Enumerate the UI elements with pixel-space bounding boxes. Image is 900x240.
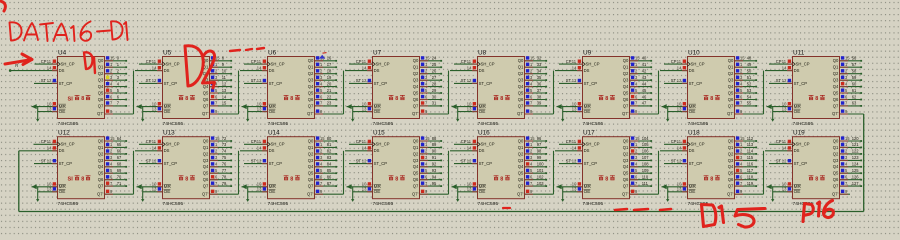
wire DS serial-in of U11, pin 14 [765, 65, 792, 70]
svg-text:15: 15 [222, 101, 227, 106]
shift register U7 74HC595 [372, 49, 420, 127]
wire output Q7 of U12, pin 7, net 71 [105, 181, 127, 187]
wire output Q3 of U13, pin 3, net 75 [210, 155, 232, 161]
svg-text:Q5: Q5 [728, 171, 734, 176]
svg-text:127: 127 [852, 181, 860, 186]
wire output Q1 of U8, pin 1, net 33 [525, 62, 547, 68]
svg-text:96: 96 [537, 136, 542, 141]
wire output Q2 of U12, pin 2, net 66 [105, 149, 127, 155]
svg-text:SH_CP: SH_CP [61, 62, 75, 67]
svg-text:ST_CP: ST_CP [164, 81, 178, 86]
svg-text:11: 11 [572, 139, 577, 144]
svg-text:Q0: Q0 [98, 58, 104, 63]
annotation red dashes near U6 [230, 48, 264, 51]
svg-text:DS: DS [269, 148, 275, 153]
svg-text:Q4: Q4 [623, 164, 629, 169]
svg-text:ST: ST [41, 158, 47, 163]
svg-text:Q7': Q7' [517, 111, 524, 116]
wire output Q0 of U13, pin 15, net 72 [210, 136, 232, 142]
wire output Q5 of U6, pin 5, net 21 [315, 88, 337, 94]
svg-text:Q4: Q4 [833, 164, 839, 169]
svg-text:68: 68 [117, 162, 122, 167]
wire output Q3 of U11, pin 3, net 59 [840, 75, 862, 81]
svg-text:91: 91 [432, 155, 437, 160]
shift register U16 74HC595 [477, 130, 525, 208]
wire serial chain Q7' pin 9 of U8 to next stage DS [525, 71, 554, 114]
wire output Q6 of U9, pin 6, net 46 [630, 94, 652, 100]
svg-text:Q7': Q7' [412, 191, 419, 196]
wire output Q4 of U4, pin 4, net 4 [105, 81, 127, 87]
svg-text:103: 103 [537, 181, 545, 186]
svg-text:R: R [15, 63, 18, 68]
wire output Q5 of U10, pin 5, net 53 [735, 88, 757, 94]
annotation D15 [702, 205, 766, 228]
svg-text:16: 16 [327, 56, 332, 61]
svg-text:Q6: Q6 [308, 177, 314, 182]
annotation red corner squiggle top-left [0, 1, 5, 11]
svg-text:121: 121 [852, 142, 860, 147]
svg-text:42: 42 [642, 69, 647, 74]
svg-text:66: 66 [117, 149, 122, 154]
wire output Q1 of U17, pin 1, net 105 [630, 142, 652, 148]
svg-text:ST_CP: ST_CP [479, 81, 493, 86]
wire output Q3 of U7, pin 3, net 27 [420, 75, 442, 81]
wire output Q3 of U9, pin 3, net 43 [630, 75, 652, 81]
svg-text:113: 113 [747, 142, 754, 147]
svg-text:11: 11 [677, 139, 682, 144]
svg-text:19: 19 [327, 75, 332, 80]
svg-text:ST_CP: ST_CP [689, 81, 703, 86]
wire output Q4 of U19, pin 4, net 124 [840, 162, 862, 168]
wire DS serial-in of U16, pin 14 [450, 146, 477, 151]
svg-text:Q0: Q0 [833, 58, 839, 63]
svg-text:DS: DS [374, 68, 380, 73]
svg-text:Q7': Q7' [517, 191, 524, 196]
wire output Q6 of U14, pin 6, net 86 [315, 175, 337, 181]
svg-text:14: 14 [782, 65, 787, 70]
svg-text:11: 11 [222, 75, 227, 80]
wire output Q4 of U5, pin 4, net 12 [210, 81, 232, 87]
svg-text:OE: OE [59, 189, 66, 194]
wire output Q7 of U16, pin 7, net 103 [525, 181, 547, 187]
wire output Q0 of U18, pin 15, net 112 [735, 136, 757, 142]
svg-text:Q7: Q7 [728, 103, 734, 108]
wire ST_CP latch stub of U12 with net label ST, pin 12 [34, 158, 57, 163]
svg-text:13: 13 [222, 88, 227, 93]
svg-text:Q3: Q3 [413, 78, 419, 83]
wire output Q5 of U14, pin 5, net 85 [315, 168, 337, 174]
svg-text:58: 58 [852, 69, 857, 74]
wire SH_CP clock stub of U17 with net label CP, pin 11 [559, 139, 582, 144]
wire ST_CP latch stub of U4 with net label ST, pin 12 [34, 78, 57, 83]
svg-text:97: 97 [537, 142, 542, 147]
wire output Q3 of U6, pin 3, net 19 [315, 75, 337, 81]
wire output Q0 of U11, pin 15, net 56 [840, 56, 862, 62]
svg-text:119: 119 [747, 181, 754, 186]
svg-text:Q2: Q2 [413, 71, 419, 76]
svg-text:Q7': Q7' [727, 191, 734, 196]
wire output Q4 of U18, pin 4, net 116 [735, 162, 757, 168]
svg-text:27: 27 [432, 75, 437, 80]
power arrow terminal on MR pin 10 and ground tail on OE pin 13 of U16 [452, 182, 478, 202]
svg-text:26: 26 [432, 69, 437, 74]
svg-text:Q7: Q7 [413, 184, 419, 189]
svg-text:74HC595: 74HC595 [583, 201, 604, 207]
svg-text:Q7': Q7' [622, 191, 629, 196]
svg-text:21: 21 [327, 88, 332, 93]
svg-text:15: 15 [110, 56, 115, 61]
svg-text:SH_CP: SH_CP [691, 142, 705, 147]
svg-text:Q3: Q3 [98, 78, 104, 83]
svg-text:12: 12 [362, 158, 367, 163]
wire output Q6 of U11, pin 6, net 62 [840, 94, 862, 100]
wire output Q5 of U9, pin 5, net 45 [630, 88, 652, 94]
svg-text:44: 44 [642, 81, 647, 86]
wire output Q2 of U17, pin 2, net 106 [630, 149, 652, 155]
svg-text:ST_CP: ST_CP [374, 161, 388, 166]
svg-text:DS: DS [794, 148, 800, 153]
wire output Q1 of U14, pin 1, net 81 [315, 142, 337, 148]
wire DS serial-in of U4, pin 14 [9, 63, 57, 72]
svg-text:12: 12 [47, 78, 52, 83]
svg-text:Q3: Q3 [308, 78, 314, 83]
wire serial chain Q7' pin 9 of U15 to next stage DS [420, 151, 449, 194]
svg-text:12: 12 [677, 78, 682, 83]
wire output Q5 of U13, pin 5, net 77 [210, 168, 232, 174]
wire output Q6 of U16, pin 6, net 102 [525, 175, 547, 181]
svg-text:12: 12 [782, 158, 787, 163]
svg-text:82: 82 [327, 149, 332, 154]
wire output Q2 of U9, pin 2, net 42 [630, 69, 652, 75]
svg-text:8: 8 [710, 96, 713, 102]
wire output Q3 of U17, pin 3, net 107 [630, 155, 652, 161]
wire ST_CP latch stub of U5 with net label ST, pin 12 [139, 78, 162, 83]
wire output Q3 of U10, pin 3, net 51 [735, 75, 757, 81]
shift register U18 74HC595 [687, 130, 735, 208]
svg-text:Q4: Q4 [518, 84, 524, 89]
svg-text:11: 11 [677, 59, 682, 64]
wire output Q0 of U4, pin 15, net 0 [105, 56, 127, 62]
svg-text:Q6: Q6 [98, 177, 104, 182]
svg-text:30: 30 [432, 94, 437, 99]
svg-text:Q6: Q6 [203, 177, 209, 182]
svg-text:Q5: Q5 [203, 171, 209, 176]
svg-text:13: 13 [782, 106, 787, 111]
wire output Q2 of U10, pin 2, net 50 [735, 69, 757, 75]
svg-text:OE: OE [374, 109, 381, 114]
svg-text:Q1: Q1 [518, 65, 524, 70]
svg-text:ST: ST [41, 78, 47, 83]
wire serial chain Q7' pin 9 of U19 to next stage DS [840, 189, 850, 194]
wire output Q6 of U7, pin 6, net 30 [420, 94, 442, 100]
svg-text:76: 76 [222, 162, 227, 167]
wire SH_CP clock stub of U8 with net label CP, pin 11 [454, 59, 477, 64]
shift register U10 74HC595 [687, 49, 735, 127]
svg-text:11: 11 [47, 139, 52, 144]
svg-text:Q1: Q1 [623, 65, 629, 70]
wire output Q0 of U5, pin 15, net 8 [210, 56, 232, 62]
svg-text:74HC595: 74HC595 [478, 121, 499, 127]
wire SH_CP clock stub of U15 with net label CP, pin 11 [349, 139, 372, 144]
svg-text:72: 72 [222, 136, 227, 141]
wire output Q3 of U15, pin 3, net 91 [420, 155, 442, 161]
svg-text:15: 15 [740, 136, 745, 141]
svg-text:12: 12 [782, 78, 787, 83]
wire output Q7 of U18, pin 7, net 119 [735, 181, 757, 187]
svg-text:Q0: Q0 [518, 138, 524, 143]
svg-text:13: 13 [257, 187, 262, 192]
svg-text:63: 63 [852, 101, 857, 106]
annotation D16 [803, 201, 833, 222]
svg-text:15: 15 [530, 56, 535, 61]
wire output Q6 of U17, pin 6, net 110 [630, 175, 652, 181]
shift register U5 74HC595 [162, 49, 210, 127]
svg-text:35: 35 [537, 75, 542, 80]
svg-text:74HC595: 74HC595 [373, 201, 394, 207]
svg-text:124: 124 [852, 162, 860, 167]
svg-text:Q3: Q3 [518, 158, 524, 163]
svg-text:11: 11 [362, 139, 367, 144]
svg-text:8: 8 [395, 176, 398, 182]
svg-text:SH_CP: SH_CP [796, 142, 810, 147]
wire feedback from U11 Q7' down right edge, across bottom, up to U12 DS [19, 114, 864, 212]
svg-text:Q3: Q3 [308, 158, 314, 163]
svg-text:126: 126 [852, 175, 860, 180]
svg-text:51: 51 [747, 75, 752, 80]
wire output Q1 of U4, pin 1, net 1 [105, 62, 127, 68]
svg-text:8: 8 [185, 176, 188, 182]
svg-text:33: 33 [537, 62, 542, 67]
wire SH_CP clock stub of U7 with net label CP, pin 11 [349, 59, 372, 64]
wire output Q0 of U14, pin 15, net 80 [315, 136, 337, 142]
svg-text:Q0: Q0 [308, 138, 314, 143]
wire SH_CP clock stub of U10 with net label CP, pin 11 [664, 59, 687, 64]
wire ST_CP latch stub of U9 with net label ST, pin 12 [559, 78, 582, 83]
wire output Q1 of U19, pin 1, net 121 [840, 142, 862, 148]
svg-text:11: 11 [467, 59, 472, 64]
wire output Q2 of U7, pin 2, net 26 [420, 69, 442, 75]
svg-text:120: 120 [852, 136, 860, 141]
wire serial chain Q7' pin 9 of U9 to next stage DS [630, 71, 659, 114]
svg-text:14: 14 [47, 146, 52, 151]
svg-text:116: 116 [747, 162, 754, 167]
wire output Q4 of U11, pin 4, net 60 [840, 81, 862, 87]
wire output Q7 of U14, pin 7, net 87 [315, 181, 337, 187]
wire DS serial-in of U5, pin 14 [135, 65, 162, 70]
svg-text:54: 54 [747, 94, 752, 99]
wire output Q2 of U4, pin 2, net 2 [105, 69, 127, 75]
annotation small red dash bottom center [503, 207, 510, 209]
wire output Q7 of U13, pin 7, net 79 [210, 181, 232, 187]
svg-text:90: 90 [432, 149, 437, 154]
svg-text:14: 14 [677, 65, 682, 70]
shift register U17 74HC595 [582, 130, 630, 208]
wire output Q1 of U13, pin 1, net 73 [210, 142, 232, 148]
wire SH_CP clock stub of U19 with net label CP, pin 11 [769, 139, 792, 144]
shift register U11 74HC595 [792, 49, 840, 127]
wire output Q4 of U9, pin 4, net 44 [630, 81, 652, 87]
svg-text:112: 112 [747, 136, 754, 141]
wire output Q2 of U18, pin 2, net 114 [735, 149, 757, 155]
wire DS serial-in of U19, pin 14 [765, 146, 792, 151]
svg-text:DS: DS [584, 68, 590, 73]
svg-text:39: 39 [537, 101, 542, 106]
wire output Q0 of U10, pin 15, net 48 [735, 56, 757, 62]
wire serial chain Q7' pin 9 of U13 to next stage DS [210, 151, 239, 194]
wire output Q6 of U18, pin 6, net 118 [735, 175, 757, 181]
svg-text:45: 45 [642, 88, 647, 93]
wire output Q3 of U16, pin 3, net 99 [525, 155, 547, 161]
svg-text:U8: U8 [478, 49, 487, 56]
svg-text:75: 75 [222, 155, 227, 160]
svg-text:Q2: Q2 [98, 151, 104, 156]
wire serial chain Q7' pin 9 of U16 to next stage DS [525, 151, 554, 194]
wire output Q7 of U11, pin 7, net 63 [840, 101, 862, 107]
wire SH_CP clock stub of U4 with net label CP, pin 11 [35, 59, 58, 64]
svg-text:ST: ST [251, 158, 257, 163]
wire ST_CP latch stub of U19 with net label ST, pin 12 [769, 158, 792, 163]
svg-text:Q4: Q4 [203, 164, 209, 169]
svg-text:DS: DS [584, 148, 590, 153]
svg-text:47: 47 [642, 101, 647, 106]
svg-text:14: 14 [467, 146, 472, 151]
svg-text:Q0: Q0 [413, 58, 419, 63]
wire output Q1 of U12, pin 1, net 65 [105, 142, 127, 148]
wire output Q4 of U14, pin 4, net 84 [315, 162, 337, 168]
svg-text:74HC595: 74HC595 [163, 121, 184, 127]
svg-text:13: 13 [467, 106, 472, 111]
svg-text:SH_CP: SH_CP [481, 142, 495, 147]
svg-text:Q1: Q1 [833, 145, 839, 150]
svg-text:Q3: Q3 [728, 78, 734, 83]
svg-text:69: 69 [117, 168, 122, 173]
wire output Q4 of U6, pin 4, net 20 [315, 81, 337, 87]
shift register U9 74HC595 [582, 49, 630, 127]
svg-text:13: 13 [572, 106, 577, 111]
svg-text:106: 106 [642, 149, 650, 154]
svg-text:Q1: Q1 [728, 65, 734, 70]
wire output Q2 of U15, pin 2, net 90 [420, 149, 442, 155]
svg-text:SI: SI [68, 96, 74, 102]
svg-text:OE: OE [59, 109, 66, 114]
svg-text:Q7': Q7' [202, 111, 209, 116]
svg-text:DS: DS [59, 148, 65, 153]
wire SH_CP clock stub of U14 with net label CP, pin 11 [244, 139, 267, 144]
svg-text:83: 83 [327, 155, 332, 160]
svg-text:13: 13 [257, 106, 262, 111]
svg-text:SH_CP: SH_CP [586, 142, 600, 147]
svg-text:22: 22 [327, 94, 332, 99]
svg-text:74HC595: 74HC595 [793, 121, 814, 127]
shift register U13 74HC595 [162, 130, 210, 208]
svg-text:ST_CP: ST_CP [584, 81, 598, 86]
svg-text:14: 14 [152, 65, 157, 70]
svg-text:U6: U6 [268, 49, 277, 56]
svg-text:84: 84 [327, 162, 332, 167]
svg-text:Q5: Q5 [413, 171, 419, 176]
power arrow terminal on MR pin 10 and ground tail on OE pin 13 of U14 [242, 182, 268, 202]
svg-text:Q6: Q6 [728, 177, 734, 182]
svg-text:77: 77 [222, 168, 227, 173]
svg-text:ST: ST [356, 78, 362, 83]
svg-text:DS: DS [269, 68, 275, 73]
shift register U12 74HC595 [57, 130, 105, 208]
svg-text:108: 108 [642, 162, 650, 167]
svg-text:105: 105 [642, 142, 650, 147]
svg-text:Q2: Q2 [833, 151, 839, 156]
svg-text:Q7': Q7' [202, 191, 209, 196]
svg-text:20: 20 [327, 81, 332, 86]
svg-text:Q3: Q3 [413, 158, 419, 163]
wire SH_CP clock stub of U12 with net label CP, pin 11 [34, 139, 58, 144]
svg-text:111: 111 [642, 181, 649, 186]
svg-text:23: 23 [327, 101, 332, 106]
wire ST_CP latch stub of U18 with net label ST, pin 12 [664, 158, 687, 163]
wire output Q6 of U10, pin 6, net 54 [735, 94, 757, 100]
svg-text:Q1: Q1 [518, 145, 524, 150]
power arrow terminal on MR pin 10 and ground tail on OE pin 13 of U9 [557, 101, 583, 121]
svg-text:8: 8 [500, 96, 503, 102]
wire DS serial-in of U10, pin 14 [660, 65, 687, 70]
svg-text:DS: DS [689, 68, 695, 73]
svg-text:71: 71 [117, 181, 122, 186]
svg-text:U12: U12 [58, 130, 70, 137]
svg-text:Q2: Q2 [728, 71, 734, 76]
shift register U15 74HC595 [372, 130, 420, 208]
annotation D1 over U4 [84, 52, 95, 73]
svg-text:14: 14 [257, 65, 262, 70]
svg-text:Q4: Q4 [203, 84, 209, 89]
svg-text:ST_CP: ST_CP [794, 161, 808, 166]
svg-text:14: 14 [47, 65, 52, 70]
wire serial chain Q7' pin 9 of U10 to next stage DS [735, 71, 764, 114]
svg-text:13: 13 [47, 106, 52, 111]
svg-text:11: 11 [47, 59, 52, 64]
svg-text:OE: OE [164, 189, 171, 194]
wire output Q1 of U16, pin 1, net 97 [525, 142, 547, 148]
svg-text:70: 70 [117, 175, 122, 180]
annotation red arrow pointing to SH_CP input [5, 54, 32, 65]
svg-text:U14: U14 [268, 130, 280, 137]
svg-text:8: 8 [290, 176, 293, 182]
wire ST_CP latch stub of U14 with net label ST, pin 12 [244, 158, 267, 163]
svg-text:SH_CP: SH_CP [166, 142, 180, 147]
svg-text:25: 25 [432, 62, 437, 67]
svg-text:ST: ST [776, 158, 782, 163]
svg-text:Q4: Q4 [308, 84, 314, 89]
svg-text:14: 14 [572, 146, 577, 151]
wire SH_CP clock stub of U11 with net label CP, pin 11 [769, 59, 792, 64]
wire serial chain Q7' pin 9 of U17 to next stage DS [630, 151, 659, 194]
svg-text:ST_CP: ST_CP [374, 81, 388, 86]
wire output Q7 of U5, pin 7, net 15 [210, 101, 232, 107]
wire SH_CP clock stub of U6 with net label CP, pin 11 [244, 59, 267, 64]
svg-text:12: 12 [677, 158, 682, 163]
wire output Q1 of U18, pin 1, net 113 [735, 142, 757, 148]
svg-text:13: 13 [572, 187, 577, 192]
svg-text:28: 28 [432, 81, 437, 86]
svg-text:Q3: Q3 [623, 158, 629, 163]
svg-text:Q1: Q1 [728, 145, 734, 150]
wire output Q5 of U18, pin 5, net 117 [735, 168, 757, 174]
svg-text:Q5: Q5 [623, 171, 629, 176]
svg-text:93: 93 [432, 168, 437, 173]
svg-text:12: 12 [572, 158, 577, 163]
svg-text:37: 37 [537, 88, 542, 93]
svg-text:U7: U7 [373, 49, 382, 56]
svg-text:74HC595: 74HC595 [583, 121, 604, 127]
svg-text:14: 14 [362, 146, 367, 151]
